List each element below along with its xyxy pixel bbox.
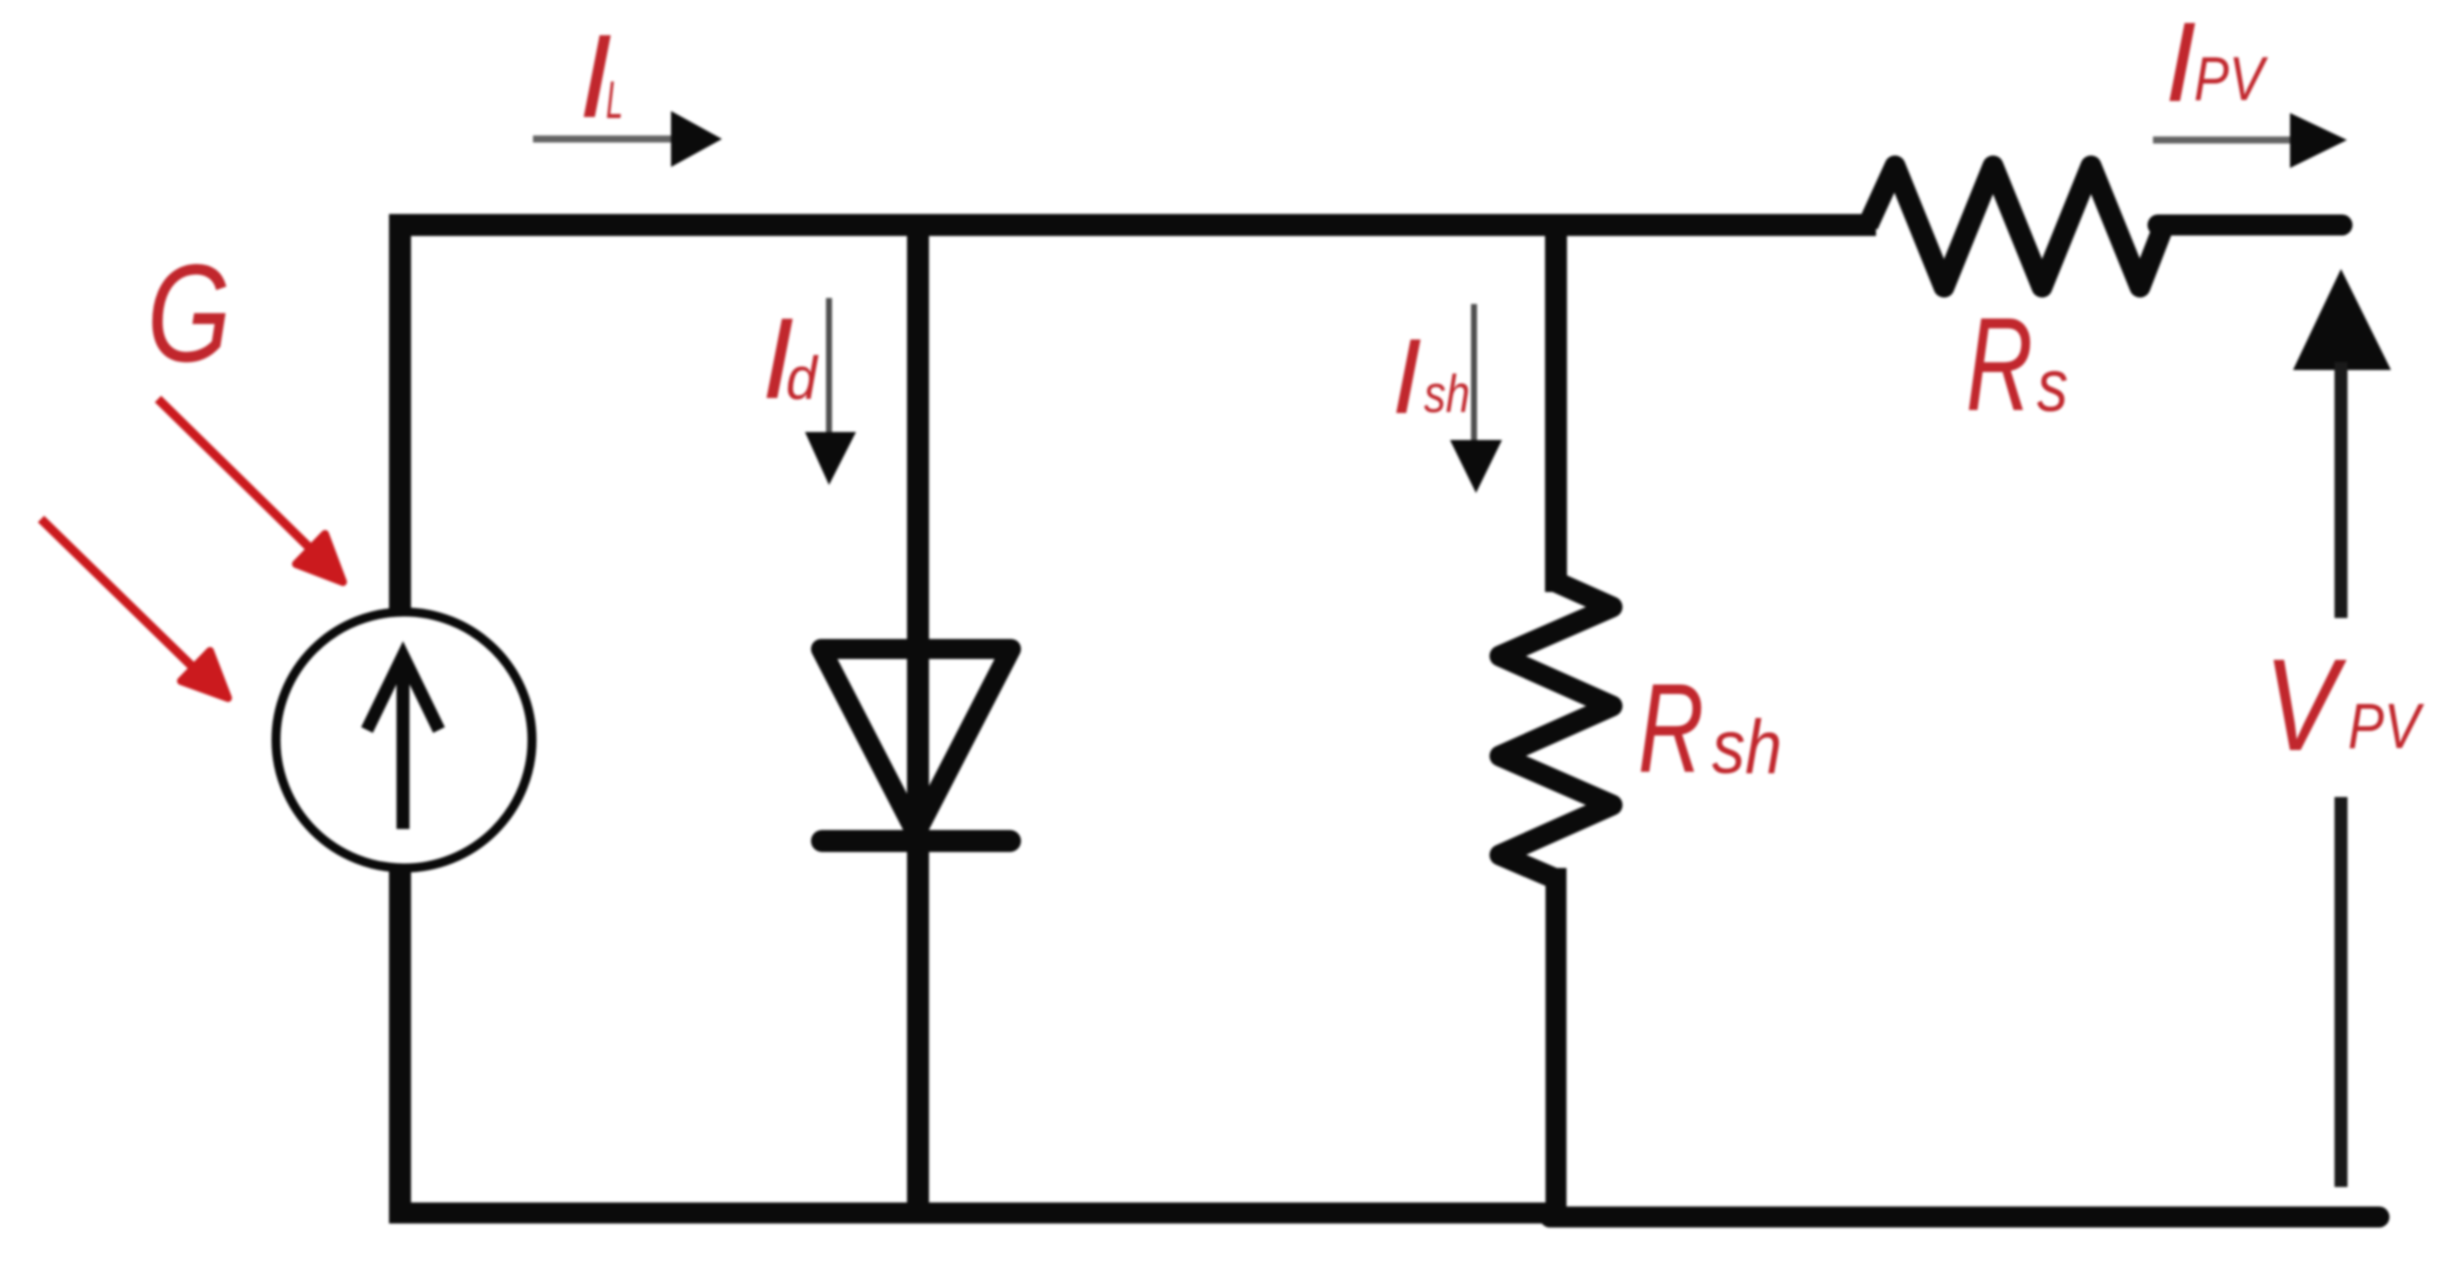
wire diode branch vertical	[907, 214, 929, 1213]
diode D1 cathode bar	[822, 830, 1010, 852]
wire bottom left segment	[389, 1203, 1560, 1224]
voltage arrow VPV lower line	[2335, 797, 2348, 1187]
current arrow IL head	[671, 111, 722, 167]
current source arrow chevron head	[367, 656, 439, 730]
svg-text:s: s	[2037, 344, 2068, 427]
current source circle	[276, 612, 532, 868]
current arrow Ish head	[1450, 440, 1502, 493]
wire Rsh branch upper	[1545, 214, 1567, 592]
current arrow IL shaft	[533, 136, 678, 143]
current arrow IPV head	[2290, 113, 2347, 168]
current arrow IPV shaft	[2153, 137, 2296, 144]
resistor Rsh zigzag	[1500, 582, 1612, 879]
diode D1 triangle	[821, 649, 1011, 833]
svg-text:d: d	[786, 345, 819, 412]
svg-text:sh: sh	[1712, 705, 1782, 790]
wire top horizontal	[389, 214, 1876, 236]
svg-text:PV: PV	[2348, 690, 2424, 762]
wire bottom right segment	[1550, 1207, 2379, 1228]
svg-text:G: G	[147, 236, 231, 391]
svg-text:R: R	[1638, 657, 1704, 799]
svg-text:I: I	[2165, 0, 2196, 125]
wire Rsh branch lower	[1546, 868, 1567, 1217]
resistor Rs zigzag	[1868, 166, 2164, 287]
voltage arrow VPV head	[2293, 269, 2391, 370]
wire top right after Rs	[2158, 215, 2342, 236]
wire left vertical upper	[389, 214, 411, 618]
current arrow Id head	[805, 432, 856, 485]
irradiance arrow G1	[158, 399, 343, 582]
svg-text:L: L	[606, 71, 623, 130]
svg-text:PV: PV	[2194, 45, 2269, 114]
irradiance arrow G2	[41, 519, 228, 698]
current source arrow shaft	[397, 660, 410, 829]
svg-text:I: I	[1392, 316, 1422, 436]
current arrow Id shaft	[826, 298, 832, 438]
voltage arrow VPV upper line	[2335, 362, 2348, 618]
svg-text:V: V	[2264, 631, 2347, 778]
svg-text:sh: sh	[1424, 365, 1470, 424]
wire left vertical lower	[389, 869, 411, 1213]
svg-text:R: R	[1966, 291, 2033, 439]
current arrow Ish shaft	[1471, 304, 1477, 446]
